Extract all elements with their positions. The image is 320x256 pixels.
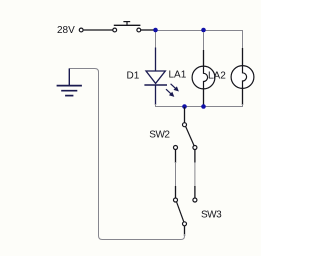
LED D1 [144,48,179,106]
lamp LA2 [231,48,254,105]
junction node C [182,104,187,109]
svg-text:LA1: LA1 [169,70,187,81]
wire node A down [155,31,157,50]
svg-text:28V: 28V [57,25,75,36]
wire SW2 to SW3 right [194,162,196,187]
ground [57,68,82,95]
wire node B down [203,32,205,51]
junction node D [201,104,206,109]
wire 28V to pushbutton [84,29,113,31]
junction node A [153,28,158,33]
terminal 28V [79,28,83,32]
svg-text:D1: D1 [127,71,140,82]
label SW3 [201,209,222,220]
junction node B [201,28,206,33]
lamp LA1 [192,50,215,106]
label LA1 [169,70,187,81]
label SW2 [149,130,170,141]
wire pushbutton to node A [141,29,154,31]
svg-text:SW3: SW3 [201,209,222,220]
wire bottom rail [156,104,243,107]
svg-text:SW2: SW2 [149,130,170,141]
label 28V [57,25,75,36]
wire SW3 to ground run [70,69,185,240]
switch SW2 [174,107,197,163]
switch SW3 [174,186,197,236]
svg-text:LA2: LA2 [208,70,226,81]
label D1 [127,71,140,82]
wire top rail [156,31,243,52]
wire SW2 to SW3 left [175,162,177,187]
pushbutton SW1 [113,22,141,32]
label LA2 [208,70,226,81]
